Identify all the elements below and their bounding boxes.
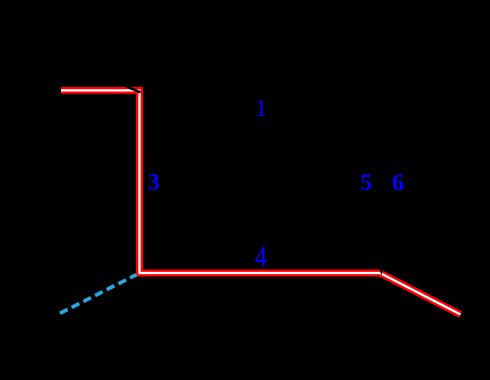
svg-text:3: 3 — [148, 169, 160, 196]
node: black notch at lower-right bend — [379, 269, 383, 276]
svg-text:1: 1 — [255, 95, 267, 122]
node: black notch at upper corner — [127, 87, 141, 93]
wire: cyan dashed glide segment — [60, 275, 137, 314]
wire: red path casing (upper leg, vertical drop, lower leg, final slope) — [61, 90, 461, 314]
svg-text:5: 5 — [360, 170, 372, 196]
wire: white core line — [61, 90, 461, 314]
svg-text:4: 4 — [255, 242, 267, 273]
svg-text:6: 6 — [392, 170, 404, 197]
